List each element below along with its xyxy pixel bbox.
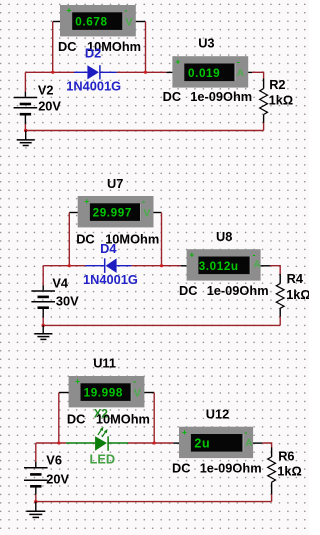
ammeter U8 body	[187, 249, 261, 280]
battery V6	[24, 443, 48, 502]
node junction V4-bottom	[41, 324, 45, 328]
svg-text:DC10MOhm: DC10MOhm	[76, 232, 159, 247]
voltmeter U11 body	[69, 376, 145, 407]
wire R2 bottom	[263, 123, 265, 131]
wire bottom return top circuit	[26, 130, 264, 132]
svg-text:DC1e-09Ohm: DC1e-09Ohm	[179, 283, 269, 298]
node junction V2-top	[51, 71, 54, 74]
resistor R6	[268, 447, 276, 494]
ground bottom circuit	[26, 502, 45, 518]
svg-text:-: -	[237, 56, 240, 66]
svg-text:A: A	[245, 438, 252, 449]
node junction V2-bottom	[24, 129, 28, 133]
svg-text:U3: U3	[198, 36, 214, 51]
wire U11 right vertical	[153, 393, 155, 443]
svg-text:U11: U11	[93, 356, 116, 371]
wire U3 left stub	[166, 71, 172, 73]
node junction U11-right	[153, 441, 156, 444]
svg-text:1N4001G: 1N4001G	[66, 78, 121, 93]
svg-text:30V: 30V	[56, 294, 79, 309]
svg-text:DC1e-09Ohm: DC1e-09Ohm	[172, 460, 262, 475]
svg-text:R2: R2	[269, 77, 285, 92]
svg-text:U12: U12	[206, 406, 229, 421]
svg-text:3.012u: 3.012u	[199, 260, 239, 273]
wire bottom return bottom circuit	[36, 501, 272, 503]
svg-text:LED: LED	[90, 451, 116, 466]
ground mid circuit	[34, 325, 52, 339]
svg-text:+: +	[75, 376, 80, 386]
wire U12 right stub	[253, 442, 262, 444]
wire mid main left	[43, 265, 85, 267]
svg-text:2u: 2u	[194, 436, 210, 450]
wire U11 right stub	[144, 392, 154, 394]
ammeter U12 body	[179, 427, 253, 458]
wire U7 left stub	[69, 212, 77, 214]
svg-text:20V: 20V	[38, 99, 61, 114]
ground top circuit	[17, 131, 35, 146]
wire U8 left stub	[181, 265, 187, 267]
svg-text:-: -	[245, 427, 248, 437]
wire bottom main left	[36, 442, 66, 444]
svg-text:+: +	[189, 249, 194, 259]
wire bottom return mid circuit	[43, 324, 280, 326]
svg-text:A: A	[253, 260, 260, 271]
svg-text:-: -	[253, 249, 256, 259]
wire U1 right stub	[136, 21, 146, 23]
svg-text:V: V	[125, 16, 133, 28]
ammeter U3 body	[172, 56, 248, 87]
svg-text:V: V	[143, 207, 151, 219]
wire U3 right stub	[248, 71, 252, 73]
svg-text:0.678: 0.678	[75, 16, 107, 29]
svg-text:D4: D4	[100, 241, 117, 256]
wire U1 left stub	[53, 21, 60, 23]
wire diode to U8	[131, 265, 180, 267]
svg-text:1kΩ: 1kΩ	[286, 287, 309, 302]
svg-text:+: +	[182, 427, 187, 437]
node junction U7-right	[160, 264, 163, 267]
wire U7 left vertical	[68, 213, 70, 266]
wire U8 right stub	[261, 265, 270, 267]
svg-text:V2: V2	[38, 82, 54, 97]
svg-text:-: -	[125, 5, 128, 15]
svg-text:A: A	[237, 68, 244, 79]
svg-text:U8: U8	[216, 229, 232, 244]
svg-text:1N4001G: 1N4001G	[83, 272, 138, 287]
svg-text:0.019: 0.019	[188, 67, 220, 80]
svg-text:DC1e-09Ohm: DC1e-09Ohm	[163, 89, 253, 104]
svg-text:V6: V6	[46, 452, 62, 467]
svg-text:-: -	[142, 196, 145, 206]
svg-text:V4: V4	[52, 276, 69, 291]
LED X2 symbol	[66, 427, 128, 451]
svg-text:+: +	[67, 5, 72, 15]
voltmeter U1 body	[60, 5, 136, 36]
svg-text:R4: R4	[287, 271, 304, 286]
svg-text:-: -	[133, 376, 136, 386]
voltmeter U7 body	[78, 196, 154, 227]
svg-text:DC10MOhm: DC10MOhm	[67, 411, 150, 426]
svg-text:+: +	[175, 56, 180, 66]
svg-text:+: +	[84, 196, 89, 206]
wire U12 left stub	[173, 442, 179, 444]
svg-text:29.997: 29.997	[93, 207, 132, 220]
wire U11 left stub	[59, 392, 69, 394]
node junction V6-bottom	[34, 500, 38, 504]
wire U12 to R6 corner	[262, 443, 271, 448]
wire U1 left vertical	[52, 22, 54, 73]
wire U1 right vertical	[145, 22, 147, 73]
battery V4	[31, 266, 55, 326]
wire U8 to R4 corner	[270, 266, 280, 275]
resistor R2	[260, 79, 268, 123]
diode D4 reversed	[85, 258, 131, 273]
svg-text:D2: D2	[85, 46, 101, 61]
node junction U7-left	[68, 264, 71, 267]
svg-text:20V: 20V	[46, 472, 69, 487]
wire U3 to R2 corner	[252, 72, 264, 78]
svg-text:1kΩ: 1kΩ	[269, 92, 294, 107]
wire diode to U3	[117, 71, 166, 73]
resistor R4	[276, 274, 284, 317]
svg-text:U7: U7	[107, 176, 123, 191]
wire top main left	[25, 71, 74, 73]
svg-text:19.998: 19.998	[84, 387, 123, 400]
wire U7 right vertical	[161, 213, 163, 266]
svg-text:1kΩ: 1kΩ	[277, 464, 302, 479]
diode D2	[74, 65, 117, 79]
svg-text:R6: R6	[278, 448, 294, 463]
wire U7 right stub	[154, 212, 162, 214]
node junction U11-left	[57, 441, 60, 444]
node junction U1-right	[144, 71, 147, 74]
wire R6 bottom	[271, 494, 273, 501]
wire R4 bottom	[279, 317, 281, 326]
wire LED to U12	[128, 442, 173, 444]
wire U11 left vertical	[58, 393, 60, 443]
svg-text:V: V	[134, 387, 142, 399]
battery V2	[14, 72, 38, 130]
